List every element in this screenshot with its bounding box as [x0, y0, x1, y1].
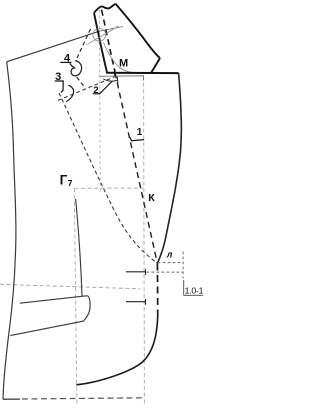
pocket flap top	[20, 296, 88, 304]
thin circle construction	[93, 28, 106, 41]
dimension text box 1.0-1.5	[183, 280, 185, 295]
chest line y=188	[74, 187, 143, 189]
lapel front curve	[157, 73, 181, 263]
heavy gorge horizontal line	[106, 72, 178, 74]
buttonhole mark 2	[126, 299, 146, 305]
loop detail at 4	[71, 61, 82, 76]
collar outer edge	[116, 4, 161, 58]
vertical construction line at collar x=99.5	[98, 10, 101, 192]
svg-text:Г: Г	[60, 173, 68, 188]
front hem curve	[76, 316, 157, 385]
dashed collar-to-loop	[76, 29, 90, 60]
collar point edge	[151, 58, 160, 73]
M point tick	[114, 69, 116, 76]
leader dashes right of break point	[158, 262, 183, 264]
bottom dashed hem line	[3, 398, 144, 399]
small arc under gorge at 2	[103, 79, 117, 81]
collar left edge	[94, 13, 107, 73]
vertical construction line x=144	[143, 76, 146, 405]
collar top wavy edge	[94, 4, 116, 13]
waist line	[0, 284, 140, 289]
thin neckline arc	[104, 43, 135, 73]
pocket flap right+bottom	[10, 296, 90, 336]
svg-text:1: 1	[137, 127, 143, 138]
arc under 3	[66, 85, 73, 101]
shoulder line	[7, 31, 100, 62]
roll line body (heavy dashed)	[115, 73, 157, 264]
svg-text:1.0-1.5: 1.0-1.5	[185, 285, 203, 295]
svg-text:л: л	[166, 249, 173, 259]
shoulder line thin extension	[100, 27, 123, 31]
thin crossing line	[86, 26, 119, 45]
thin line under gorge	[100, 76, 144, 81]
svg-text:К: К	[148, 192, 155, 204]
small arc left of loop	[70, 63, 74, 67]
loop exit dashes	[77, 77, 84, 86]
vertical construction line x=75	[74, 189, 77, 406]
dart line	[76, 199, 82, 296]
buttonhole mark 1	[126, 269, 146, 275]
side seam	[3, 62, 16, 399]
collar roll line (heavy dashed)	[102, 10, 115, 73]
fine dashed curve to break point	[59, 93, 157, 263]
vertical dashed dimension line	[182, 252, 184, 279]
front edge dashed below break point	[156, 264, 158, 319]
svg-text:М: М	[119, 58, 128, 70]
svg-text:7: 7	[68, 178, 73, 188]
fine dashed shoulder line A	[58, 77, 115, 101]
